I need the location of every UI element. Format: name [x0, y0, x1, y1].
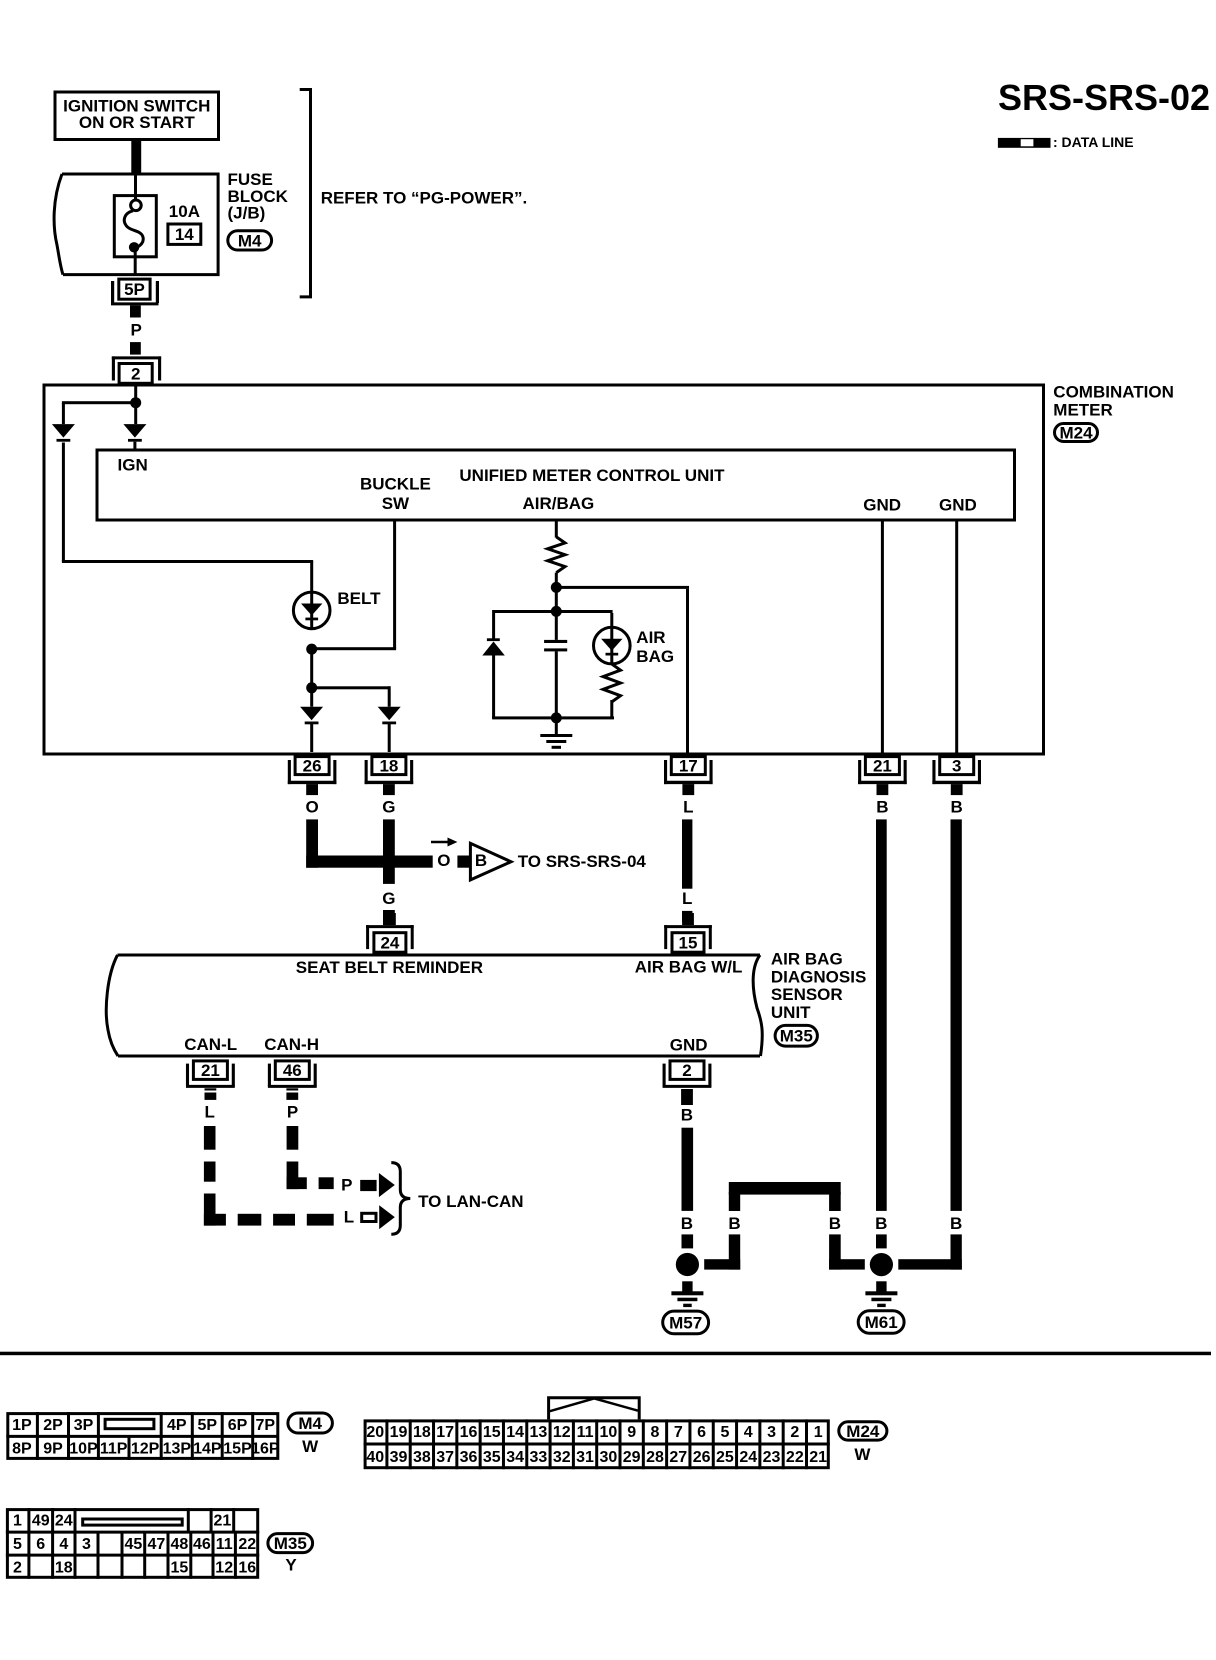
connector face M24 (40 pin) — [364, 1398, 830, 1470]
legend data line symbol — [998, 138, 1051, 148]
fuse number box 14 — [168, 224, 201, 244]
connector pin 15 (air bag diagnosis sensor unit) — [664, 913, 712, 952]
ground symbol M61 — [865, 1281, 897, 1307]
svg-text:B: B — [681, 1214, 693, 1233]
ground node M61 — [870, 1253, 893, 1276]
connector code oval M24 connector face — [839, 1422, 887, 1441]
svg-text:SEAT BELT REMINDER: SEAT BELT REMINDER — [296, 958, 483, 977]
svg-text:TO LAN-CAN: TO LAN-CAN — [418, 1192, 523, 1211]
svg-text:W: W — [854, 1445, 871, 1464]
svg-text:L: L — [205, 1103, 215, 1122]
connector pin 2 (combination meter top) — [112, 356, 161, 383]
svg-text:21: 21 — [873, 757, 892, 776]
svg-text:5P: 5P — [124, 280, 145, 299]
svg-text:28: 28 — [646, 1449, 664, 1466]
wire O from pin 26 (thick) — [306, 819, 433, 867]
wire D4 to pin 18 — [388, 724, 391, 752]
wire parallel network top rail — [492, 610, 612, 613]
ground (internal, meter) — [540, 719, 572, 748]
resistor R1 (air bag pin) — [548, 537, 565, 573]
wire B from pin 3 (thick) — [951, 819, 962, 1211]
svg-text:13P: 13P — [163, 1441, 192, 1458]
svg-text:34: 34 — [506, 1449, 524, 1466]
svg-text:17: 17 — [679, 757, 698, 776]
wire junction dot to diode D2 — [134, 403, 137, 424]
label COMBINATION METER — [1053, 383, 1174, 420]
air bag diagnosis sensor unit box (torn edges) — [106, 955, 762, 1056]
svg-text:REFER TO “PG-POWER”.: REFER TO “PG-POWER”. — [321, 188, 528, 207]
svg-text:10P: 10P — [69, 1441, 98, 1458]
svg-text:DIAGNOSIS: DIAGNOSIS — [771, 967, 866, 986]
svg-text:2: 2 — [790, 1424, 799, 1441]
svg-text:TO SRS-SRS-04: TO SRS-SRS-04 — [518, 852, 647, 871]
wire G into connector 24 (thick) — [383, 910, 395, 925]
svg-text:P: P — [341, 1176, 352, 1195]
svg-text:12P: 12P — [131, 1441, 160, 1458]
svg-text:12: 12 — [553, 1424, 571, 1441]
svg-text:10A: 10A — [169, 202, 200, 221]
svg-text:3P: 3P — [74, 1417, 94, 1434]
wire B from pin 21 (thick) — [876, 819, 887, 1211]
svg-text:32: 32 — [553, 1449, 571, 1466]
svg-text:19: 19 — [390, 1424, 408, 1441]
svg-text:37: 37 — [436, 1449, 454, 1466]
svg-text:B: B — [728, 1214, 740, 1233]
svg-text:26: 26 — [303, 757, 322, 776]
connector pin 17 (combination meter) — [664, 757, 713, 796]
svg-text:2: 2 — [682, 1061, 691, 1080]
connector code oval M35 air bag diagnosis sensor unit — [775, 1025, 817, 1046]
svg-text:45: 45 — [124, 1536, 142, 1553]
wire B GND to ground M57 (thick) — [682, 1128, 694, 1249]
svg-text:UNIFIED METER CONTROL UNIT: UNIFIED METER CONTROL UNIT — [459, 466, 725, 485]
svg-text:4P: 4P — [167, 1417, 187, 1434]
svg-text:L: L — [344, 1208, 354, 1227]
connector code oval M4 connector face — [288, 1413, 333, 1433]
svg-text:IGN: IGN — [118, 456, 148, 475]
wire BUCKLE SW pin down — [393, 522, 396, 649]
wire R1 to junction — [555, 573, 558, 585]
svg-text:AIR BAG W/L: AIR BAG W/L — [635, 958, 743, 977]
svg-text:1P: 1P — [12, 1417, 32, 1434]
svg-text:26: 26 — [693, 1449, 711, 1466]
label AIR BAG — [636, 628, 674, 666]
fuse F14 element — [124, 200, 143, 253]
connector pin 18 (combination meter) — [365, 757, 414, 796]
arrow direction marker — [431, 838, 457, 847]
diode D4 (to pin 18) — [378, 707, 401, 725]
svg-text:21: 21 — [201, 1061, 220, 1080]
diode D3 (to pin 26) — [300, 707, 323, 725]
wire to 18 branch — [312, 686, 391, 706]
svg-text:40: 40 — [366, 1449, 384, 1466]
wire junction down to parallel network — [555, 590, 558, 612]
svg-text:COMBINATION: COMBINATION — [1053, 383, 1174, 402]
svg-text:4: 4 — [59, 1536, 68, 1553]
wire to AIR BAG lamp — [610, 613, 613, 628]
svg-text:B: B — [681, 1106, 693, 1125]
svg-text:24: 24 — [380, 933, 399, 952]
svg-text:M24: M24 — [846, 1422, 880, 1441]
svg-text:5: 5 — [720, 1424, 729, 1441]
svg-text:15: 15 — [679, 933, 698, 952]
bracket REFER TO PG-POWER — [300, 90, 311, 297]
connector code oval M61 body ground — [858, 1311, 904, 1334]
svg-text:1: 1 — [814, 1424, 823, 1441]
svg-text:24: 24 — [55, 1513, 73, 1530]
svg-text:16: 16 — [238, 1560, 256, 1577]
wire between junctions — [310, 649, 313, 688]
svg-text:14: 14 — [175, 225, 194, 244]
svg-text:AIR: AIR — [636, 628, 665, 647]
connector pin 5P (fuse block bottom) — [111, 279, 159, 304]
connector pin 24 (air bag diagnosis sensor unit) — [366, 913, 414, 952]
svg-text:L: L — [683, 798, 693, 817]
svg-text:8: 8 — [651, 1424, 660, 1441]
wire D1 down and right to BELT lamp — [62, 443, 313, 592]
svg-text:8P: 8P — [12, 1441, 32, 1458]
wire junction to connector 17 — [556, 586, 689, 754]
label AIR BAG DIAGNOSIS SENSOR UNIT — [771, 950, 866, 1022]
svg-text:M24: M24 — [1059, 423, 1093, 442]
svg-text:P: P — [131, 321, 142, 340]
connector code oval M4 fuse block — [228, 231, 272, 251]
svg-text:9: 9 — [627, 1424, 636, 1441]
svg-text:3: 3 — [767, 1424, 776, 1441]
svg-text:11: 11 — [577, 1424, 594, 1441]
svg-text:6: 6 — [697, 1424, 706, 1441]
wire left branch down to diode D5 — [492, 613, 495, 639]
svg-text:31: 31 — [576, 1449, 594, 1466]
svg-text:AIR/BAG: AIR/BAG — [523, 494, 595, 513]
svg-text:M35: M35 — [274, 1534, 307, 1553]
svg-text:21: 21 — [809, 1449, 827, 1466]
svg-text:METER: METER — [1053, 400, 1113, 419]
wire ignition switch to fuse block (thick) — [131, 140, 141, 175]
svg-text:BUCKLE: BUCKLE — [360, 475, 431, 494]
svg-text:16P: 16P — [251, 1441, 280, 1458]
svg-text:5P: 5P — [198, 1417, 218, 1434]
wire R2 to bottom rail — [610, 700, 613, 718]
capacitor C1 — [544, 613, 567, 718]
diode D5 (clamp, cathode up) — [482, 638, 505, 655]
arrow P to LAN-CAN — [360, 1173, 395, 1197]
svg-text:B: B — [875, 1214, 887, 1233]
svg-text:35: 35 — [483, 1449, 501, 1466]
data line wire P (CAN-H, dashed thick) — [287, 1126, 334, 1189]
svg-text:1: 1 — [13, 1513, 22, 1530]
svg-text:4: 4 — [744, 1424, 753, 1441]
ground symbol M57 — [671, 1281, 703, 1307]
wire bridge M57 to M61 (thick) — [704, 1182, 865, 1270]
svg-text:49: 49 — [32, 1513, 50, 1530]
junction node under connector 2 — [130, 397, 141, 408]
power source box IGNITION SWITCH ON OR START — [55, 92, 219, 140]
junction node to diode branches — [306, 682, 317, 693]
wire L from pin 17 (thick) — [682, 819, 692, 888]
svg-text:M61: M61 — [865, 1313, 898, 1332]
svg-text:M57: M57 — [669, 1313, 702, 1332]
svg-text:10: 10 — [599, 1424, 617, 1441]
svg-text:27: 27 — [669, 1449, 687, 1466]
junction node below BELT lamp — [306, 644, 317, 655]
svg-text:6P: 6P — [228, 1417, 248, 1434]
svg-text:13: 13 — [530, 1424, 548, 1441]
resistor R2 (below air bag lamp) — [603, 664, 620, 702]
svg-text:5: 5 — [13, 1536, 22, 1553]
off-page connector triangle B — [470, 843, 511, 880]
svg-text:L: L — [682, 889, 692, 908]
connector pin 21 (air bag diagnosis sensor unit) — [186, 1061, 235, 1100]
unified meter control unit box — [97, 450, 1015, 520]
svg-text:B: B — [950, 1214, 962, 1233]
svg-text:9P: 9P — [43, 1441, 63, 1458]
wire to 26 branch — [310, 693, 313, 707]
svg-text:11P: 11P — [100, 1441, 128, 1458]
fuse block J/B outline (torn left edge) — [62, 174, 218, 275]
svg-text:ON OR START: ON OR START — [79, 113, 195, 132]
wire P label to connector 2 (thick) — [130, 342, 141, 355]
svg-text:18: 18 — [413, 1424, 431, 1441]
fuse F14 body — [114, 196, 156, 257]
svg-text:AIR BAG: AIR BAG — [771, 950, 843, 969]
wire G from pin 18 (thick) — [383, 819, 395, 884]
wire D2 to IGN pin — [133, 442, 136, 451]
svg-text:SW: SW — [382, 494, 410, 513]
svg-text:G: G — [382, 798, 395, 817]
svg-text:M35: M35 — [780, 1027, 813, 1046]
svg-text:3: 3 — [952, 757, 961, 776]
separator rule — [0, 1352, 1211, 1356]
svg-text:UNIT: UNIT — [771, 1003, 811, 1022]
brace to LAN-CAN — [391, 1163, 410, 1235]
svg-text:22: 22 — [786, 1449, 804, 1466]
svg-text:20: 20 — [366, 1424, 384, 1441]
wire D3 to pin 26 — [310, 724, 313, 752]
svg-text:O: O — [305, 798, 318, 817]
svg-text:SENSOR: SENSOR — [771, 985, 843, 1004]
svg-text:B: B — [829, 1214, 841, 1233]
diode D1 (left IGN feed) — [52, 424, 75, 442]
svg-text:Y: Y — [285, 1555, 297, 1574]
svg-text:B: B — [951, 798, 963, 817]
connector pin 2 (air bag diagnosis sensor unit) — [663, 1061, 712, 1105]
junction node air bag branch to pin 17 — [551, 582, 562, 593]
svg-text:GND: GND — [939, 496, 977, 515]
svg-text:CAN-H: CAN-H — [264, 1035, 319, 1054]
svg-text:18: 18 — [55, 1560, 73, 1577]
connector pin 26 (combination meter) — [288, 757, 337, 796]
wire GND pin 3 to connector 3 — [955, 522, 958, 753]
lamp BELT (LED) — [293, 592, 330, 629]
wire buckle sw to belt lamp junction — [312, 647, 396, 650]
wire O into off-page marker (thick) — [457, 856, 469, 868]
ground node M57 — [676, 1253, 699, 1276]
svg-text:P: P — [287, 1103, 298, 1122]
wire AIR/BAG pin down — [555, 522, 558, 538]
combination meter box — [44, 385, 1044, 754]
connector face M35 (49 pin) — [6, 1508, 259, 1579]
junction node top of capacitor — [551, 606, 562, 617]
lamp AIR BAG (LED) — [594, 627, 631, 664]
svg-text:16: 16 — [460, 1424, 478, 1441]
connector code oval M57 body ground — [663, 1311, 709, 1334]
svg-text:M4: M4 — [238, 231, 262, 250]
svg-text:GND: GND — [863, 496, 901, 515]
connector pin 46 (air bag diagnosis sensor unit) — [268, 1061, 317, 1100]
svg-text:: DATA LINE: : DATA LINE — [1053, 134, 1134, 150]
wire into fuse F14 — [134, 174, 137, 201]
data line wire L (CAN-L, dashed thick) — [204, 1126, 334, 1226]
svg-text:CAN-L: CAN-L — [184, 1035, 237, 1054]
diode D2 (IGN pin feed) — [123, 424, 146, 442]
svg-text:24: 24 — [739, 1449, 757, 1466]
svg-text:B: B — [876, 798, 888, 817]
svg-text:7: 7 — [674, 1424, 683, 1441]
wire pin 3 tail to M61 (thick) — [898, 1234, 962, 1269]
wire D5 to bottom rail — [492, 656, 495, 719]
svg-text:17: 17 — [436, 1424, 454, 1441]
svg-text:B: B — [475, 851, 487, 870]
svg-text:30: 30 — [599, 1449, 617, 1466]
svg-text:BAG: BAG — [636, 647, 674, 666]
svg-text:46: 46 — [193, 1536, 211, 1553]
svg-text:23: 23 — [763, 1449, 781, 1466]
svg-text:25: 25 — [716, 1449, 734, 1466]
svg-text:6: 6 — [36, 1536, 45, 1553]
connector pin 21 (combination meter) — [858, 757, 907, 796]
connector code oval M24 combination meter — [1055, 423, 1098, 442]
wire L into connector 15 (thick) — [682, 911, 692, 922]
connector pin 3 (combination meter) — [932, 757, 981, 796]
svg-text:2: 2 — [131, 364, 140, 383]
svg-text:G: G — [382, 889, 395, 908]
wire fuse to connector 5P — [134, 251, 137, 276]
svg-text:12: 12 — [215, 1560, 233, 1577]
label BUCKLE SW — [360, 475, 431, 513]
wire connector 2 into meter — [134, 387, 137, 399]
svg-text:36: 36 — [460, 1449, 478, 1466]
junction node bottom of capacitor — [551, 712, 562, 723]
svg-text:48: 48 — [171, 1536, 189, 1553]
svg-text:3: 3 — [82, 1536, 91, 1553]
svg-text:21: 21 — [214, 1513, 232, 1530]
svg-text:(J/B): (J/B) — [228, 204, 266, 223]
wire pin 21 tail to M61 (thick) — [876, 1234, 887, 1248]
wire left branch to diode D1 — [62, 401, 136, 424]
wire parallel network bottom rail — [492, 716, 614, 719]
svg-text:M4: M4 — [298, 1414, 322, 1433]
svg-text:18: 18 — [379, 757, 398, 776]
svg-text:GND: GND — [670, 1036, 708, 1055]
svg-text:W: W — [302, 1437, 319, 1456]
svg-text:47: 47 — [147, 1536, 165, 1553]
svg-text:11: 11 — [216, 1536, 233, 1553]
svg-text:SRS-SRS-02: SRS-SRS-02 — [998, 77, 1210, 118]
wire GND pin 21 to connector 21 — [881, 522, 884, 753]
svg-text:14P: 14P — [193, 1441, 222, 1458]
svg-text:2: 2 — [13, 1560, 22, 1577]
svg-text:15: 15 — [171, 1560, 189, 1577]
label FUSE BLOCK (J/B) — [228, 170, 289, 223]
svg-text:15P: 15P — [223, 1441, 252, 1458]
svg-text:15: 15 — [483, 1424, 501, 1441]
svg-text:O: O — [437, 851, 450, 870]
svg-text:22: 22 — [238, 1536, 256, 1553]
svg-text:7P: 7P — [256, 1417, 276, 1434]
svg-text:14: 14 — [506, 1424, 524, 1441]
connector face M4 (16 pin) — [6, 1412, 280, 1460]
arrow L to LAN-CAN (dashed) — [362, 1205, 395, 1229]
svg-text:2P: 2P — [43, 1417, 63, 1434]
svg-text:39: 39 — [390, 1449, 408, 1466]
connector code oval M35 connector face — [268, 1534, 313, 1553]
wire 5P to P label (thick) — [130, 305, 141, 317]
svg-text:38: 38 — [413, 1449, 431, 1466]
svg-text:46: 46 — [283, 1061, 302, 1080]
svg-text:BELT: BELT — [337, 589, 381, 608]
svg-text:29: 29 — [623, 1449, 641, 1466]
svg-text:33: 33 — [530, 1449, 548, 1466]
